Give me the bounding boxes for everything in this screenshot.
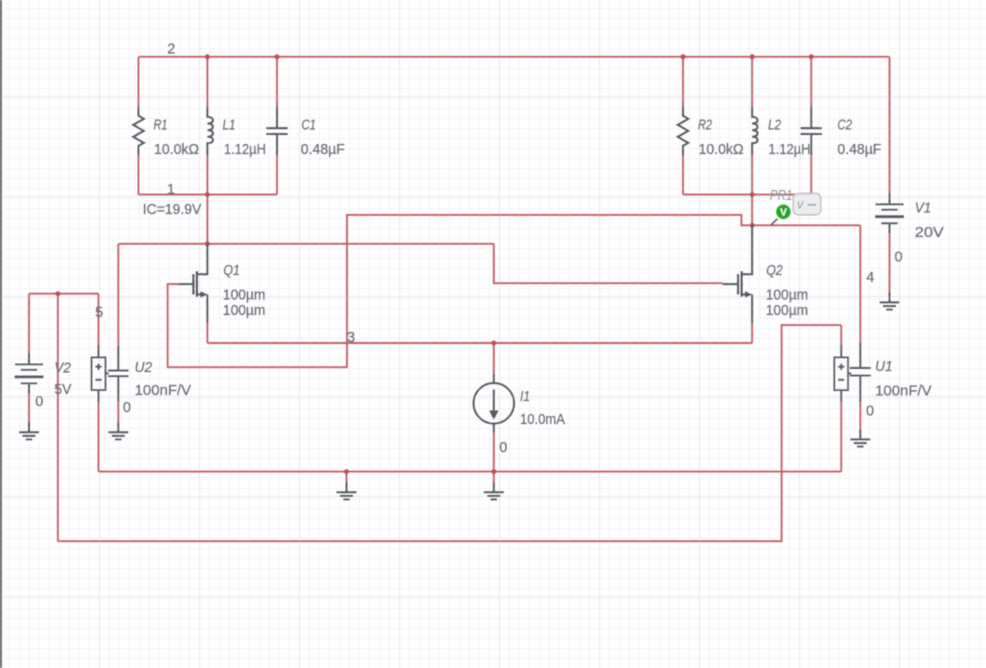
wire R2 bottom [682,156,684,195]
svg-text:R1: R1 [154,117,168,133]
wire V1 top [889,57,891,193]
probe PR1 marker [771,205,791,226]
inductor L1 [207,106,213,155]
junction top rail L2 [750,54,755,59]
svg-text:Q2: Q2 [766,263,783,279]
svg-text:100nF/V: 100nF/V [135,383,192,399]
svg-text:L1: L1 [223,117,236,133]
wire Q2 gate drop and run [494,244,723,283]
svg-text:C1: C1 [302,117,317,133]
svg-text:10.0kΩ: 10.0kΩ [699,142,744,158]
junction top rail R2 [681,54,686,59]
svg-text:1.12µH: 1.12µH [769,142,811,158]
battery V2 [15,353,44,393]
svg-text:1: 1 [167,182,175,198]
wire L1 column down to node1 rail [206,195,208,244]
svg-text:v: v [797,198,804,212]
wire R1 bottom [138,156,140,195]
svg-text:IC=19.9V: IC=19.9V [143,202,202,218]
svg-text:5: 5 [95,305,103,321]
svg-text:R2: R2 [698,117,712,133]
svg-text:0.48µF: 0.48µF [301,142,345,158]
svg-text:L2: L2 [768,117,781,133]
svg-text:100µm: 100µm [766,287,809,303]
junction top rail L1 [205,54,210,59]
wire U2 box top [98,294,100,345]
svg-text:0: 0 [499,440,507,456]
wire PR1 node to U1 cap [752,224,860,226]
wire ground stub mid [346,472,348,483]
svg-text:U1: U1 [875,359,893,375]
resistor R2 [678,106,689,155]
svg-text:1.12µH: 1.12µH [224,142,266,158]
junction top rail C2 [809,54,814,59]
probe PR1 tooltip [793,193,821,214]
wire ground stub I1 [493,472,495,483]
wire net5 bottom rail [58,325,841,541]
current source I1 [474,374,515,433]
battery V1 [875,193,904,233]
wire net0 bottom ground bus [99,471,842,473]
svg-text:5V: 5V [54,382,71,398]
wire net5 down from tee [57,294,59,542]
svg-text:3: 3 [347,330,355,346]
wire U1 cap bottom to ground [859,402,861,429]
wire net1 horizontal U2cap to Q2 gate drop [118,243,494,245]
wire C2 top [810,57,812,107]
svg-text:4: 4 [866,270,874,286]
wire R1 top [138,57,140,106]
ground below U1 cap [850,429,870,446]
wire U2 box bottom down [98,402,100,471]
vcc capacitor U2 [92,345,129,402]
wire net1 tank bottom left [139,194,278,196]
wire C1 top [276,57,278,107]
wire L2 bottom [751,155,753,195]
ground below U2 cap [108,422,128,439]
svg-text:I1: I1 [520,389,530,405]
svg-text:2: 2 [167,41,175,57]
wire Q1 gate cross-couple to Q2 drain [168,215,752,367]
wire U2 cap top [117,244,119,346]
junction top rail C1 [275,54,280,59]
svg-text:10.0kΩ: 10.0kΩ [154,142,199,158]
wire C2 bottom [810,155,812,195]
wire U2 cap bottom to ground [117,402,119,423]
svg-text:V1: V1 [915,200,932,216]
wire L1 bottom to node1 [206,155,208,195]
wire Q2 source down [751,323,753,343]
wire net3 Q1 source to Q2 source [207,342,752,344]
svg-text:100µm: 100µm [223,303,266,319]
wire I1 bottom [493,433,495,472]
wire Q1 source down [206,323,208,343]
vcc capacitor U1 [834,343,871,403]
svg-text:10.0mA: 10.0mA [520,412,565,428]
svg-text:V: V [780,208,787,219]
wire V2 bottom to ground [28,393,30,422]
resistor R1 [133,106,144,155]
wire net tank bottom right [683,194,811,196]
wire V1 bottom to ground [889,233,891,292]
wire V2 top [28,294,30,354]
junction tank bottom right [750,192,755,197]
svg-text:0.48µF: 0.48µF [837,142,881,158]
wire U1 box bottom [840,402,842,471]
junction I1 top [491,341,496,346]
wire V2 to U2 plus [29,293,99,295]
ground below V1 [880,293,900,310]
sheet border left edge [0,0,2,668]
ground mid bus [337,482,357,499]
junction node1 Q1 drain [205,241,210,246]
svg-text:0: 0 [35,394,43,410]
wire U1 cap top [859,225,861,342]
svg-text:100µm: 100µm [766,303,809,319]
wire net2 top rail [139,56,890,58]
svg-text:0: 0 [123,400,131,416]
inductor L2 [752,106,758,155]
junction V2 tee [55,291,60,296]
svg-text:PR1: PR1 [770,188,793,204]
junction ground bus mid [344,469,349,474]
wire L2 top [751,57,753,106]
transistor Q1 [178,244,207,323]
transistor Q2 [723,225,752,323]
svg-text:V2: V2 [54,361,71,377]
wire R2 top [682,57,684,106]
ground below I1 [484,482,504,499]
capacitor C1 [266,106,287,155]
junction Q2 drain PR1 [750,223,755,228]
svg-text:100µm: 100µm [223,287,266,303]
junction tank bottom left [205,192,210,197]
wire U1 box top [840,325,842,345]
svg-text:0: 0 [866,403,874,419]
svg-text:100nF/V: 100nF/V [875,383,932,399]
junction ground bus I1 [491,469,496,474]
svg-text:U2: U2 [135,360,153,376]
svg-text:C2: C2 [837,117,852,133]
wire L2 column down to Q2 drain [751,195,753,226]
svg-text:Q1: Q1 [223,263,240,279]
wire L1 top [206,57,208,106]
capacitor C2 [801,106,822,155]
wire C1 bottom [276,155,278,195]
wire I1 top [493,343,495,374]
ground below V2 [19,422,39,439]
svg-text:20V: 20V [915,225,944,241]
svg-text:0: 0 [895,249,903,265]
